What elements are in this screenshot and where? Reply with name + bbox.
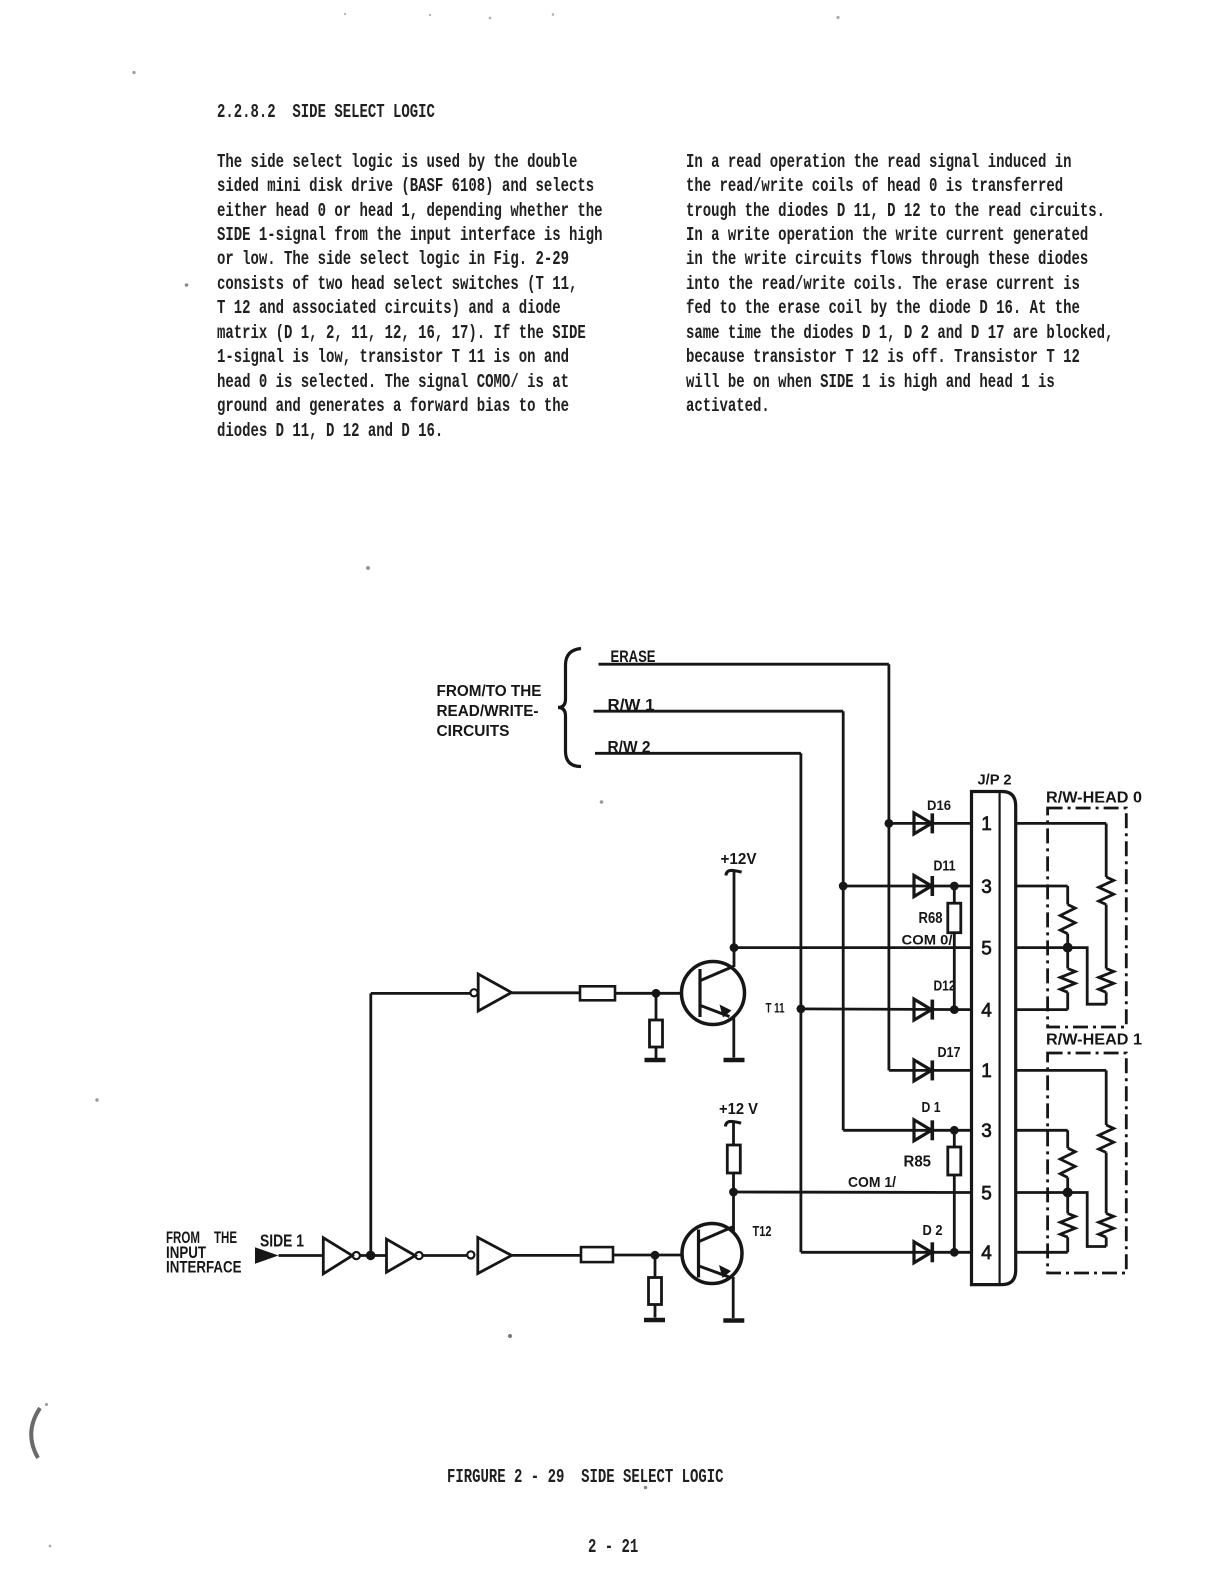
svg-text:R/W-HEAD 0: R/W-HEAD 0 — [1046, 790, 1142, 807]
svg-text:R/W 1: R/W 1 — [608, 695, 655, 714]
svg-text:J/P 2: J/P 2 — [978, 772, 1012, 789]
svg-text:5: 5 — [981, 1183, 992, 1204]
svg-text:READ/WRITE-: READ/WRITE- — [437, 703, 539, 720]
svg-text:FROM/TO THE: FROM/TO THE — [437, 683, 542, 700]
svg-text:D11: D11 — [934, 858, 956, 875]
svg-text:1: 1 — [981, 814, 992, 835]
svg-text:T12: T12 — [753, 1223, 772, 1240]
svg-text:D16: D16 — [927, 797, 951, 813]
svg-text:SIDE 1: SIDE 1 — [260, 1231, 304, 1251]
svg-text:3: 3 — [981, 1121, 992, 1142]
svg-text:R85: R85 — [904, 1154, 932, 1171]
svg-text:R68: R68 — [919, 910, 943, 927]
svg-text:COM 1/: COM 1/ — [848, 1174, 897, 1191]
svg-text:5: 5 — [981, 938, 992, 959]
svg-text:D12: D12 — [934, 978, 956, 995]
svg-text:ERASE: ERASE — [611, 647, 656, 666]
svg-text:4: 4 — [981, 1000, 992, 1021]
svg-text:D 1: D 1 — [922, 1099, 941, 1116]
svg-text:T 11: T 11 — [766, 1000, 785, 1016]
svg-text:+12 V: +12 V — [719, 1101, 758, 1118]
svg-text:INTERFACE: INTERFACE — [166, 1258, 242, 1277]
svg-text:D17: D17 — [938, 1044, 961, 1061]
svg-text:+12V: +12V — [721, 851, 757, 868]
svg-text:4: 4 — [981, 1243, 992, 1264]
svg-text:D 2: D 2 — [923, 1222, 943, 1239]
svg-text:R/W 2: R/W 2 — [608, 737, 651, 756]
svg-text:1: 1 — [981, 1061, 992, 1082]
svg-text:CIRCUITS: CIRCUITS — [437, 723, 510, 740]
svg-text:COM 0/: COM 0/ — [902, 932, 953, 948]
svg-text:3: 3 — [981, 877, 992, 898]
svg-text:THE: THE — [214, 1228, 237, 1247]
svg-text:R/W-HEAD 1: R/W-HEAD 1 — [1046, 1032, 1142, 1049]
